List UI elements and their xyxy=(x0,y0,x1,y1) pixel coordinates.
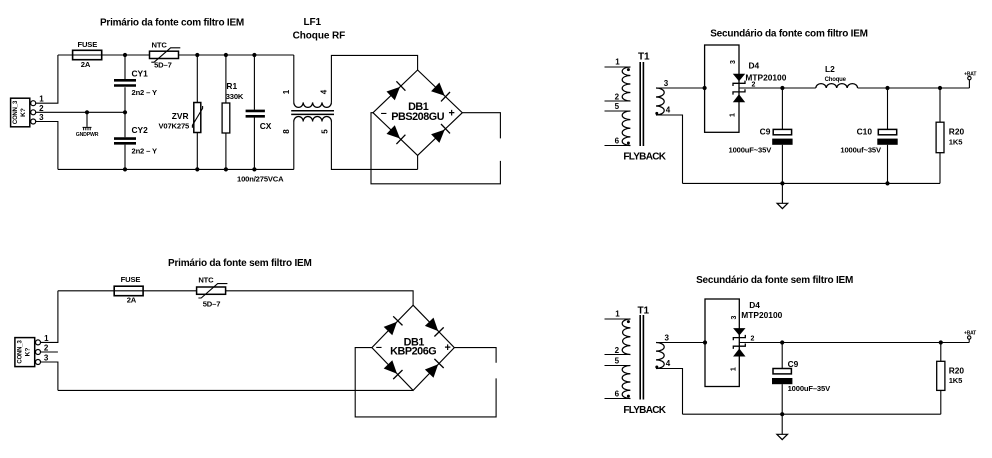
svg-text:5: 5 xyxy=(615,102,620,111)
value 330K xyxy=(226,92,244,101)
junction node R20 top (2) xyxy=(939,340,943,344)
pin number 1 D4 xyxy=(730,113,737,117)
choke LF1 top winding xyxy=(294,102,332,107)
label D4 xyxy=(749,61,760,71)
svg-text:2n2 – Y: 2n2 – Y xyxy=(132,88,157,97)
transformer T1 dot secondary (2) xyxy=(655,366,658,369)
pin number 3 T1 (2) xyxy=(664,333,669,342)
junction node CY2 bottom xyxy=(123,167,127,171)
wire pin3 to bottom rail (2) xyxy=(41,362,58,390)
label Choque RF xyxy=(293,31,345,42)
svg-text:FUSE: FUSE xyxy=(121,275,141,284)
svg-text:R1: R1 xyxy=(226,81,237,91)
bridge diode bottom-right xyxy=(431,124,450,143)
bottom rail secondary xyxy=(683,182,941,184)
svg-text:2: 2 xyxy=(615,346,620,355)
svg-text:3: 3 xyxy=(664,79,669,88)
pin number 2 D4 (2) xyxy=(751,336,755,343)
resistor R20 (2) xyxy=(937,343,945,415)
svg-text:T1: T1 xyxy=(638,305,650,316)
svg-text:1: 1 xyxy=(44,334,49,343)
pin number 1 (2) xyxy=(44,334,49,343)
svg-text:GNDPWR: GNDPWR xyxy=(76,132,99,138)
svg-text:CY2: CY2 xyxy=(132,125,149,135)
pin number 5 LF1 xyxy=(321,129,330,134)
fuse label FUSE (2) xyxy=(121,275,141,284)
bridge diode top-right (2) xyxy=(425,318,444,337)
pin number 3 T1 xyxy=(664,79,669,88)
wire T1 pin4 down (2) xyxy=(656,369,683,415)
rectifier D4 package box (2) xyxy=(705,299,739,387)
pin number 2 xyxy=(39,104,44,113)
svg-text:C10: C10 xyxy=(857,126,873,136)
thermistor label NTC xyxy=(152,41,168,50)
top rail wire (2) xyxy=(58,291,413,305)
svg-text:D4: D4 xyxy=(749,61,760,71)
pin number 5 T1 (2) xyxy=(615,356,620,365)
inductor L2 xyxy=(816,84,858,88)
wire T1 pin3 to D4 xyxy=(656,87,705,89)
transformer T1 label (2) xyxy=(638,305,650,316)
power flag +BAT xyxy=(964,71,976,88)
svg-text:100n/275VCA: 100n/275VCA xyxy=(237,174,284,183)
junction node R20 top xyxy=(938,86,942,90)
choke LF1 pin8 wire xyxy=(293,122,295,170)
junction node CX bottom xyxy=(252,167,256,171)
transformer T1 dot winding1 (2) xyxy=(627,320,630,323)
svg-text:C9: C9 xyxy=(760,126,771,136)
bridge DB1 diamond xyxy=(373,70,462,155)
pin number 2 T1 xyxy=(615,92,620,101)
capacitor C9 xyxy=(772,88,792,183)
svg-text:D4: D4 xyxy=(749,300,760,310)
label CX xyxy=(260,121,272,131)
label D4 (2) xyxy=(749,300,760,310)
ground GNDPWR symbol xyxy=(76,112,99,138)
svg-text:1: 1 xyxy=(730,113,737,117)
junction node D4 input (2) xyxy=(703,340,707,344)
svg-text:ZVR: ZVR xyxy=(172,111,189,121)
transformer T1 winding 1-2 (2) xyxy=(622,319,630,355)
svg-text:LF1: LF1 xyxy=(303,17,321,28)
svg-text:PBS208GU: PBS208GU xyxy=(391,111,444,123)
svg-text:3: 3 xyxy=(731,316,738,320)
svg-text:Primário da fonte sem filtro I: Primário da fonte sem filtro IEM xyxy=(168,258,312,269)
svg-text:2: 2 xyxy=(39,104,44,113)
resistor R20 xyxy=(936,88,944,183)
pin number 3 D4 xyxy=(730,60,737,64)
choke LF1 bottom winding xyxy=(294,116,332,121)
svg-text:FLYBACK: FLYBACK xyxy=(623,152,666,163)
svg-text:Primário da fonte com filtro I: Primário da fonte com filtro IEM xyxy=(100,18,244,29)
svg-text:2: 2 xyxy=(751,336,755,343)
label CY2 xyxy=(132,125,149,135)
label C9 xyxy=(760,126,771,136)
fuse FUSE (2) xyxy=(114,286,143,296)
schematic title: Primario da fonte com filtro IEM xyxy=(100,18,244,29)
svg-text:1: 1 xyxy=(731,367,738,371)
svg-text:2: 2 xyxy=(752,81,756,88)
wire D4 output (2) xyxy=(739,342,969,344)
wire bridge AC bottom xyxy=(417,155,419,169)
transformer T1 dot winding2 xyxy=(627,142,630,145)
bridge minus sign xyxy=(381,107,387,119)
transformer T1 pin1 wire (2) xyxy=(605,318,631,320)
wire T1 pin4 down xyxy=(656,115,683,183)
svg-text:3: 3 xyxy=(664,333,669,342)
label DB1 xyxy=(408,101,429,113)
pin number 1 LF1 xyxy=(282,89,291,94)
pin number 1 D4 (2) xyxy=(731,367,738,371)
connector K? CONN_3 xyxy=(11,98,30,127)
svg-text:2: 2 xyxy=(44,344,49,353)
pin number 6 T1 xyxy=(615,137,620,146)
capacitor CY1 xyxy=(114,55,136,112)
svg-text:CX: CX xyxy=(260,121,272,131)
bridge plus sign xyxy=(448,108,454,120)
thermistor label NTC (2) xyxy=(198,275,214,284)
wire bridge plus output xyxy=(462,113,500,139)
svg-text:CONN_3: CONN_3 xyxy=(13,100,19,124)
svg-text:1000uF–35V: 1000uF–35V xyxy=(788,384,831,393)
svg-text:R20: R20 xyxy=(949,366,965,376)
rectifier D4 top diode (2) xyxy=(733,328,745,340)
svg-text:MTP20100: MTP20100 xyxy=(741,310,782,320)
schematic title: Secundario da fonte com filtro IEM xyxy=(710,29,868,40)
wire pin1 to top rail (2) xyxy=(41,291,58,343)
schematic title: Primario da fonte sem filtro IEM xyxy=(168,258,312,269)
pin number 5 T1 xyxy=(615,102,620,111)
capacitor C9 (2) xyxy=(772,343,792,415)
transformer T1 pin5 wire xyxy=(605,110,631,112)
svg-text:8: 8 xyxy=(282,129,291,134)
value CY1 2n2 - Y xyxy=(132,88,157,97)
label MTP20100 xyxy=(745,72,786,82)
choke LF1 core xyxy=(291,111,334,115)
svg-text:5: 5 xyxy=(321,129,330,134)
svg-text:6: 6 xyxy=(615,137,620,146)
svg-text:–: – xyxy=(381,107,387,119)
junction node C9 bottom (2) xyxy=(780,412,784,416)
transformer T1 winding 5-6 xyxy=(622,111,630,146)
top rail wire xyxy=(58,54,294,56)
svg-text:+BAT: +BAT xyxy=(964,331,976,337)
rectifier D4 top diode xyxy=(733,74,745,86)
svg-text:KBP206G: KBP206G xyxy=(390,346,436,358)
label CY1 xyxy=(132,69,149,79)
bridge plus sign (2) xyxy=(444,342,450,354)
svg-text:6: 6 xyxy=(615,390,620,399)
resistor R1 xyxy=(222,55,230,169)
capacitor CX xyxy=(246,55,265,169)
pin number 3 D4 (2) xyxy=(731,316,738,320)
bridge diode top-left xyxy=(387,81,406,100)
value C10 1000uf~35V xyxy=(840,146,882,155)
wire pin1 to top rail xyxy=(36,55,58,103)
pin number 2 D4 xyxy=(752,81,756,88)
junction node CY1 top xyxy=(123,53,127,57)
label L2 xyxy=(825,64,835,74)
svg-text:V07K275: V07K275 xyxy=(158,121,190,130)
thermistor value 5D-7 (2) xyxy=(203,299,221,308)
svg-text:K?: K? xyxy=(24,348,31,357)
pin number 1 xyxy=(39,95,44,104)
power flag +BAT (2) xyxy=(964,331,976,343)
svg-text:4: 4 xyxy=(666,106,671,115)
bridge DB1 diamond (2) xyxy=(372,305,454,390)
svg-text:+BAT: +BAT xyxy=(964,71,976,77)
transformer T1 secondary winding xyxy=(656,88,664,115)
svg-text:Choque: Choque xyxy=(825,77,847,83)
svg-text:5D–7: 5D–7 xyxy=(154,61,172,70)
value R20 1K5 (2) xyxy=(949,376,963,385)
connector pin circles (2) xyxy=(36,340,41,365)
svg-text:1: 1 xyxy=(282,89,291,94)
pin number 4 LF1 xyxy=(319,89,328,94)
transformer T1 dot winding1 xyxy=(627,68,630,71)
schematic title: Secundario da fonte sem filtro IEM xyxy=(696,275,853,286)
bridge diode top-left (2) xyxy=(384,316,403,335)
rectifier D4 bottom diode xyxy=(733,89,745,102)
bridge minus sign (2) xyxy=(376,341,382,353)
svg-text:5D–7: 5D–7 xyxy=(203,299,221,308)
pin number 3 (2) xyxy=(44,353,49,362)
junction node pin2/GNDPWR xyxy=(85,110,89,114)
wire bridge minus output (2) xyxy=(355,348,496,417)
transformer T1 pin2 wire (2) xyxy=(605,354,631,356)
junction node C9 top xyxy=(780,86,784,90)
choke LF1 pin4 wire to bridge xyxy=(331,55,417,102)
label R1 xyxy=(226,81,237,91)
label MTP20100 (2) xyxy=(741,310,782,320)
svg-text:CY1: CY1 xyxy=(132,69,149,79)
svg-text:C9: C9 xyxy=(788,359,799,369)
transformer T1 pin1 wire xyxy=(605,66,631,68)
pin number 2 (2) xyxy=(44,344,49,353)
capacitor CY2 xyxy=(114,112,136,169)
junction node C9 bottom xyxy=(780,181,784,185)
choke LF1 pin1 wire xyxy=(293,55,295,102)
junction node R1 bottom xyxy=(224,167,228,171)
svg-text:1: 1 xyxy=(615,57,620,66)
transformer T1 dot secondary xyxy=(655,112,658,115)
junction node D4 input xyxy=(703,86,707,90)
transformer T1 pin5 wire (2) xyxy=(605,365,631,367)
label R20 (2) xyxy=(949,366,965,376)
svg-text:NTC: NTC xyxy=(152,41,168,50)
junction node CY mid xyxy=(123,110,127,114)
value C9 1000uF-35V (2) xyxy=(788,384,831,393)
thermistor NTC (2) xyxy=(197,284,228,298)
capacitor C10 xyxy=(877,88,897,183)
svg-text:2A: 2A xyxy=(127,296,137,305)
svg-text:3: 3 xyxy=(44,353,49,362)
bridge diode bottom-left xyxy=(387,125,406,144)
junction node CX top xyxy=(252,53,256,57)
fuse value 2A (2) xyxy=(127,296,137,305)
svg-text:1K5: 1K5 xyxy=(949,376,963,385)
bottom rail wire (2) xyxy=(58,389,413,391)
fuse value 2A xyxy=(81,60,91,69)
transformer T1 dot winding2 (2) xyxy=(627,395,630,398)
pin number 3 xyxy=(39,113,44,122)
wire pin3 to bottom rail xyxy=(36,122,58,170)
pin number 8 LF1 xyxy=(282,129,291,134)
thermistor value 5D-7 xyxy=(154,61,172,70)
value CY2 2n2 - Y xyxy=(132,146,157,155)
label DB1 (2) xyxy=(404,337,425,349)
ground symbol secondary xyxy=(777,183,788,208)
varistor ZVR xyxy=(192,55,202,169)
svg-text:1: 1 xyxy=(615,309,620,318)
wire L2 to +BAT xyxy=(858,87,970,89)
choke LF1 pin5 wire to bridge bottom xyxy=(331,122,417,170)
pin number 4 T1 xyxy=(666,106,671,115)
junction node C10 top xyxy=(885,86,889,90)
svg-text:2A: 2A xyxy=(81,60,91,69)
transformer T1 core xyxy=(640,62,643,146)
value V07K275 xyxy=(158,121,190,130)
transformer T1 FLYBACK label xyxy=(623,152,666,163)
svg-text:L2: L2 xyxy=(825,64,835,74)
svg-text:1000uf~35V: 1000uf~35V xyxy=(840,146,882,155)
wire bridge minus output xyxy=(371,113,500,184)
label C9 (2) xyxy=(788,359,799,369)
fuse FUSE xyxy=(73,50,102,59)
connector K? CONN_3 (2) xyxy=(15,338,35,367)
transformer T1 winding 5-6 (2) xyxy=(622,366,630,399)
pin number 2 T1 (2) xyxy=(615,346,620,355)
svg-text:3: 3 xyxy=(39,113,44,122)
rectifier D4 bottom diode (2) xyxy=(733,344,745,357)
label L2 Choque xyxy=(825,77,847,83)
label KBP206G (2) xyxy=(390,346,436,358)
svg-text:330K: 330K xyxy=(226,92,244,101)
bridge diode bottom-right (2) xyxy=(425,359,444,378)
wire pin2 stub xyxy=(41,351,58,353)
svg-text:T1: T1 xyxy=(638,52,650,63)
transformer T1 FLYBACK label (2) xyxy=(623,405,666,416)
value C9 1000uF~35V xyxy=(729,146,773,155)
junction node C9 top (2) xyxy=(780,340,784,344)
svg-text:4: 4 xyxy=(666,359,671,368)
pin number 1 T1 xyxy=(615,57,620,66)
svg-text:+: + xyxy=(444,342,450,354)
wire D4 output xyxy=(739,87,816,89)
wire bridge plus output (2) xyxy=(454,348,496,363)
svg-text:+: + xyxy=(448,108,454,120)
svg-text:NTC: NTC xyxy=(198,275,214,284)
wire pin2 to CY junction xyxy=(36,111,125,113)
svg-text:R20: R20 xyxy=(949,127,965,137)
pin number 6 T1 (2) xyxy=(615,390,620,399)
transformer T1 label xyxy=(638,52,650,63)
bridge diode bottom-left (2) xyxy=(384,360,403,379)
bridge diode top-right xyxy=(431,83,450,102)
ground symbol secondary (2) xyxy=(777,414,788,439)
svg-text:4: 4 xyxy=(319,89,328,94)
transformer T1 secondary winding (2) xyxy=(656,343,664,369)
transformer T1 core (2) xyxy=(640,315,643,400)
transformer T1 pin6 wire (2) xyxy=(605,398,631,400)
bottom rail secondary (2) xyxy=(683,413,941,415)
bottom rail wire xyxy=(58,168,294,170)
value 100n/275VCA xyxy=(237,174,284,183)
junction node ZVR bottom xyxy=(195,167,199,171)
svg-text:1000uF~35V: 1000uF~35V xyxy=(729,146,773,155)
label PBS208GU xyxy=(391,111,444,123)
label R20 xyxy=(949,127,965,137)
wire T1 pin3 to D4 (2) xyxy=(656,342,705,344)
label LF1 xyxy=(303,17,321,28)
label C10 xyxy=(857,126,873,136)
rectifier D4 package box xyxy=(705,45,739,132)
svg-text:K?: K? xyxy=(20,108,27,117)
svg-text:1K5: 1K5 xyxy=(949,137,963,146)
junction node R1 top xyxy=(224,53,228,57)
pin number 1 T1 (2) xyxy=(615,309,620,318)
svg-text:Choque RF: Choque RF xyxy=(293,31,345,42)
svg-text:3: 3 xyxy=(730,60,737,64)
label ZVR xyxy=(172,111,189,121)
junction node ZVR top xyxy=(195,53,199,57)
value R20 1K5 xyxy=(949,137,963,146)
svg-text:5: 5 xyxy=(615,356,620,365)
svg-text:FUSE: FUSE xyxy=(77,40,97,49)
connector pin circles xyxy=(31,101,36,124)
svg-text:–: – xyxy=(376,341,382,353)
fuse label FUSE xyxy=(77,40,97,49)
transformer T1 pin6 wire xyxy=(605,145,631,147)
svg-text:Secundário da fonte com filtro: Secundário da fonte com filtro IEM xyxy=(710,29,868,40)
svg-text:1: 1 xyxy=(39,95,44,104)
svg-text:Secundário da fonte sem filtro: Secundário da fonte sem filtro IEM xyxy=(696,275,853,286)
transformer T1 winding 1-2 xyxy=(622,67,630,101)
junction node C10 bottom xyxy=(885,181,889,185)
svg-text:CONN_3: CONN_3 xyxy=(18,340,24,364)
thermistor NTC xyxy=(150,48,181,62)
svg-text:FLYBACK: FLYBACK xyxy=(623,405,666,416)
transformer T1 pin2 wire xyxy=(605,100,631,102)
svg-text:2n2 – Y: 2n2 – Y xyxy=(132,146,157,155)
svg-text:2: 2 xyxy=(615,92,620,101)
pin number 4 T1 (2) xyxy=(666,359,671,368)
